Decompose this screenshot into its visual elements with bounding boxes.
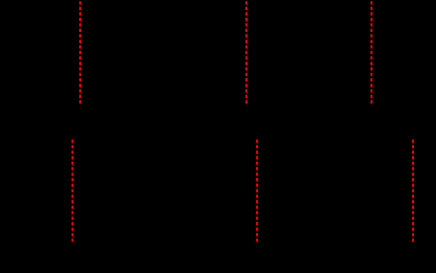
bottom subplot event marker line 2 bbox=[256, 140, 258, 243]
top subplot event marker line 1 bbox=[79, 1, 81, 103]
bottom subplot event marker line 3 bbox=[412, 140, 414, 243]
top subplot event marker line 2 bbox=[245, 1, 247, 103]
bottom subplot event marker line 1 bbox=[72, 140, 74, 243]
top subplot event marker line 3 bbox=[371, 1, 373, 103]
